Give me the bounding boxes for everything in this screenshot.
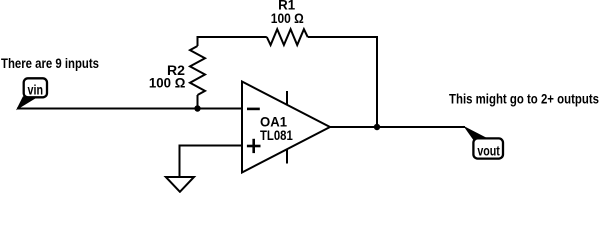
- negative supply pin: [286, 149, 288, 164]
- resistor R2: [190, 46, 205, 95]
- wire: feedback top, right segment: [308, 36, 378, 38]
- wire: vin to op-amp inverting input: [17, 108, 242, 110]
- svg-text:100 Ω: 100 Ω: [149, 75, 186, 90]
- positive supply pin: [286, 91, 288, 105]
- inverting input marker: [247, 108, 260, 111]
- ground: [166, 177, 194, 192]
- wire: R2 top to feedback corner: [197, 36, 199, 46]
- wire: op-amp output to vout: [330, 126, 465, 128]
- junction: output node: [374, 124, 380, 130]
- op-amp body: [242, 82, 330, 173]
- svg-text:This might go to 2+ outputs: This might go to 2+ outputs: [449, 92, 599, 107]
- wire: feedback down to output node: [376, 36, 378, 127]
- svg-text:100 Ω: 100 Ω: [271, 11, 304, 26]
- net flag vout: [463, 126, 503, 159]
- svg-text:vin: vin: [28, 82, 44, 97]
- net flag vin: [16, 78, 47, 110]
- wire: feedback top, left segment: [197, 36, 267, 38]
- wire: non-inverting input to ground: [180, 146, 243, 177]
- svg-text:TL081: TL081: [260, 128, 293, 143]
- junction: inverting input node: [194, 105, 200, 111]
- op-amp OA1: [242, 82, 330, 173]
- resistor R1: [267, 29, 308, 45]
- svg-text:vout: vout: [477, 143, 500, 158]
- svg-text:There are 9 inputs: There are 9 inputs: [1, 56, 99, 71]
- non-inverting input marker: [247, 139, 261, 153]
- wire: node up to R2: [197, 95, 199, 109]
